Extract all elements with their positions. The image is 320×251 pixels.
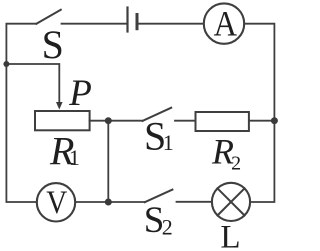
- lamp cross stroke 1: [218, 188, 245, 215]
- svg-text:2: 2: [162, 214, 173, 239]
- slider arrow head P: [56, 102, 63, 110]
- svg-text:A: A: [214, 3, 237, 43]
- voltmeter V body: [37, 183, 75, 221]
- rheostat R1 body: [35, 111, 90, 130]
- lamp L body: [212, 183, 250, 221]
- switch S1 blade: [143, 108, 172, 121]
- wire V to S2: [75, 201, 145, 203]
- wire switch to battery: [62, 23, 127, 25]
- battery short plate: [136, 15, 139, 29]
- wire right vertical lower: [250, 121, 274, 202]
- wire junction branch vertical: [107, 121, 109, 202]
- wire junction to slider bend: [6, 64, 59, 102]
- wire R2 to right vertical: [249, 120, 275, 122]
- wire left vertical lower: [6, 64, 36, 202]
- switch S2 blade: [145, 190, 173, 203]
- svg-text:V: V: [46, 185, 67, 221]
- wire S1 to R2: [175, 120, 196, 122]
- junction node R1-S1: [105, 117, 112, 124]
- svg-text:2: 2: [231, 153, 241, 175]
- switch S blade: [36, 10, 60, 24]
- svg-text:P: P: [68, 73, 92, 114]
- svg-text:1: 1: [69, 145, 80, 170]
- wire R1 to S1: [90, 120, 143, 122]
- lamp cross stroke 2: [218, 188, 245, 215]
- svg-text:1: 1: [163, 130, 174, 155]
- svg-text:S: S: [42, 22, 64, 67]
- wire ammeter to top-right corner: [244, 24, 274, 121]
- ammeter A body: [204, 3, 244, 43]
- battery long plate: [126, 8, 128, 32]
- wire S2 to lamp: [177, 201, 212, 203]
- wire top-left horizontal: [6, 24, 36, 64]
- junction node bottom: [105, 199, 112, 206]
- resistor R2 body: [196, 112, 249, 131]
- junction node left: [3, 61, 9, 67]
- wire battery to ammeter: [139, 23, 204, 25]
- svg-text:L: L: [220, 220, 240, 251]
- junction node right: [271, 117, 278, 124]
